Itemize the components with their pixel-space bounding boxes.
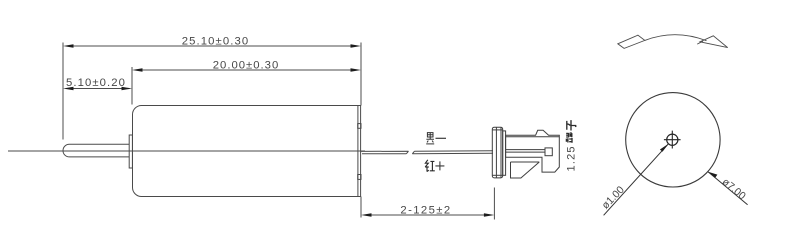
wire segment 1 <box>361 151 409 154</box>
end view crosshair <box>664 131 681 149</box>
arrowhead 2-125 left <box>361 213 372 217</box>
leader dia 7.00 <box>708 172 748 205</box>
dimension line 25.10 <box>72 45 352 47</box>
leader arrowhead dia 1.00 <box>660 144 669 152</box>
centerline <box>8 150 365 152</box>
connector skirt <box>511 162 540 178</box>
wire label black (hei) <box>426 133 434 144</box>
curvature mark arc <box>645 35 707 41</box>
bushing <box>129 135 132 168</box>
end view shaft circle <box>667 134 678 145</box>
arrowhead 25.10 left <box>63 44 74 48</box>
connector housing <box>506 130 560 178</box>
curvature mark parallelogram <box>618 35 645 48</box>
svg-text:2-125±2: 2-125±2 <box>400 205 451 217</box>
motor body <box>133 106 358 197</box>
extension line shaft tip <box>62 43 64 140</box>
curvature mark arc tail <box>697 41 703 44</box>
end cap tab upper <box>358 124 361 129</box>
shaft <box>63 144 130 157</box>
extension line body left <box>131 67 133 105</box>
arrowhead 2-125 right <box>484 213 495 217</box>
extension line connector left <box>493 188 495 220</box>
connector terminal box <box>545 148 552 156</box>
leader arrowhead dia 7.00 <box>708 172 717 178</box>
connector inner top line <box>506 136 560 138</box>
end cap <box>358 106 361 197</box>
dimension line 5.10 <box>72 88 123 90</box>
arrowhead 20.00 right <box>351 68 362 72</box>
dimension line 20.00 <box>141 69 352 71</box>
end cap tab lower <box>358 175 361 180</box>
connector label duan (rotated) <box>566 133 572 143</box>
svg-text:20.00±0.30: 20.00±0.30 <box>213 60 279 72</box>
extension line body right <box>360 43 362 106</box>
wire label dash after black <box>436 137 447 139</box>
wire label red (hong) <box>425 160 435 172</box>
arrowhead 25.10 right <box>351 44 362 48</box>
arrowhead 5.10 left <box>63 87 74 91</box>
wire label plus after red <box>435 161 444 170</box>
svg-text:5.10±0.20: 5.10±0.20 <box>66 77 126 89</box>
connector boot <box>492 127 505 178</box>
dimension line 2-125 <box>370 214 486 216</box>
leader dia 1.00 <box>604 144 669 215</box>
connector label zi (rotated) <box>567 120 576 130</box>
curvature mark triangle <box>700 36 728 48</box>
arrowhead 20.00 left <box>132 68 143 72</box>
svg-text:1.25: 1.25 <box>566 145 578 171</box>
arrowhead 5.10 right <box>122 87 133 91</box>
svg-text:25.10±0.30: 25.10±0.30 <box>182 36 249 48</box>
connector wires inside <box>506 150 545 153</box>
end view outer circle <box>626 93 720 187</box>
wire segment 2 <box>412 151 493 154</box>
